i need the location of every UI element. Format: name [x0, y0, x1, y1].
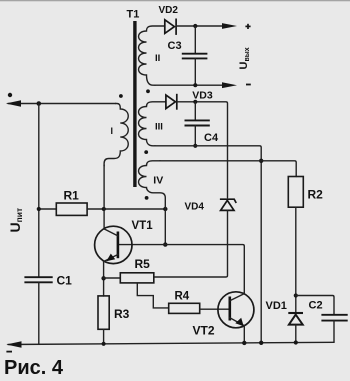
svg-text:R2: R2 [308, 188, 324, 202]
node phasing dot winding II [146, 89, 150, 93]
wire VD4 bottom corner to R5 right [154, 210, 228, 277]
svg-text:C2: C2 [309, 300, 323, 312]
wire left rail upper [38, 104, 40, 278]
wire VD2 cathode to plus arrow [176, 25, 223, 27]
svg-text:VT1: VT1 [132, 220, 154, 232]
node junction base wire [163, 242, 167, 246]
wire R4 right to VT2 base [200, 308, 230, 310]
winding IV [139, 161, 166, 209]
svg-text:C3: C3 [168, 40, 182, 52]
node junction C4 top [193, 100, 197, 104]
wire left rail lower [38, 282, 40, 344]
svg-text:T1: T1 [127, 9, 140, 21]
resistor R3 [98, 296, 109, 329]
node phasing dot winding IV [145, 196, 149, 200]
label U_vykh [238, 47, 251, 69]
node junction C4 bottom [193, 144, 197, 148]
node junction winding IV bottom [163, 207, 167, 211]
transistor VT1 [95, 226, 132, 263]
capacitor C2 [296, 296, 334, 315]
wire VT1 emitter down [103, 262, 105, 297]
svg-text:II: II [155, 53, 160, 64]
node junction C3 bottom [193, 83, 197, 87]
svg-text:VD4: VD4 [185, 202, 205, 213]
svg-text:III: III [155, 121, 163, 132]
capacitor C3 [194, 26, 196, 54]
winding II [139, 26, 165, 85]
wire VT2 emitter to rail [243, 326, 245, 344]
svg-text:VT2: VT2 [193, 324, 215, 338]
svg-text:C1: C1 [57, 274, 73, 288]
wire winding I bottom to VT1 collector [103, 165, 105, 229]
wire winding III bottom to right column [155, 146, 261, 343]
node phasing dot winding I [119, 94, 123, 98]
terminal arrow left bottom [6, 341, 21, 347]
node junction VD1 rail [294, 340, 298, 344]
node junction collector crossing [102, 207, 106, 211]
node junction VD1 C2 top [294, 293, 298, 297]
wire R5 tap zigzag to R4 [137, 283, 168, 308]
terminal arrow right minus [222, 82, 237, 88]
wire winding II bottom to minus arrow [155, 84, 223, 86]
resistor R4 [169, 303, 200, 313]
resistor R1 [56, 203, 87, 215]
wire base node down [164, 209, 166, 245]
wire emitter junction to R5 [104, 277, 121, 279]
node dot top-left terminal [8, 93, 12, 97]
label plus right [245, 25, 250, 27]
capacitor C1 [24, 276, 52, 278]
svg-text:R1: R1 [64, 189, 80, 203]
node junction C3 top [193, 24, 197, 28]
diode VD3 [166, 95, 176, 109]
wire top rail [8, 103, 116, 105]
terminal arrow left top [6, 100, 21, 106]
wire R3 bottom to rail [103, 329, 105, 344]
capacitor C4 [194, 102, 196, 121]
resistor R5 [120, 273, 154, 283]
wire R1 left [39, 208, 57, 210]
svg-text:Рис. 4: Рис. 4 [4, 357, 64, 379]
winding III [139, 102, 166, 146]
node junction R1 left rail [37, 207, 41, 211]
label U_pit [7, 208, 24, 233]
wire winding IV top to R2 [160, 161, 296, 177]
diode VD1 [288, 312, 303, 314]
node phasing dot winding III [144, 150, 148, 154]
wire R1 right to base node [87, 208, 165, 210]
transistor VT2 [218, 292, 254, 328]
transformer T1 core [133, 21, 136, 187]
node junction windings III-IV [259, 159, 263, 163]
node junction right column on rail [259, 341, 263, 345]
winding I [104, 104, 128, 167]
node junction left rail top [37, 101, 42, 106]
wire R2 bottom to VD1 [295, 207, 297, 312]
label minus right [246, 84, 251, 86]
wire bottom rail [8, 342, 334, 344]
svg-text:VD1: VD1 [266, 300, 287, 312]
svg-text:C4: C4 [204, 132, 219, 144]
node junction R3 rail [102, 342, 106, 346]
svg-text:VD2: VD2 [159, 5, 179, 16]
svg-text:I: I [111, 126, 114, 136]
resistor R2 [288, 177, 303, 208]
wire VD1 bottom to rail [295, 325, 297, 343]
node junction emitter R5 R3 [101, 276, 105, 280]
wire base node to VT2 collector [119, 245, 244, 294]
wire VD3 cathode right and corner down to VD4 [177, 102, 228, 198]
diode VD2 [165, 20, 175, 34]
terminal arrow right plus [222, 23, 237, 29]
svg-text:R5: R5 [135, 257, 151, 271]
scan border top edge [0, 0, 350, 2]
svg-text:R3: R3 [114, 307, 130, 321]
svg-text:R4: R4 [175, 291, 190, 303]
svg-text:IV: IV [153, 174, 163, 186]
label minus bottom-left [6, 351, 12, 353]
node junction VT2 emitter rail [242, 341, 246, 345]
zener VD4 [220, 199, 236, 203]
